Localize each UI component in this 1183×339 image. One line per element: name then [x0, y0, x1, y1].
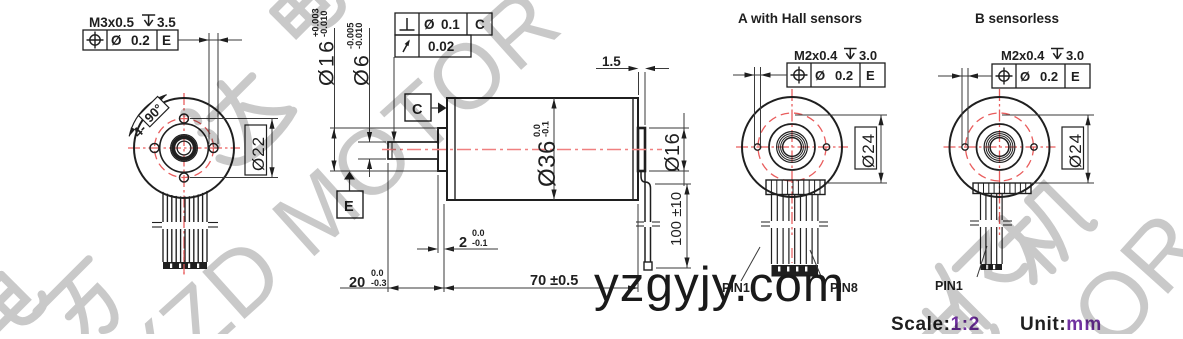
- view A M2 holes: [754, 144, 760, 150]
- left view shaft inner circle: [177, 141, 191, 155]
- Ø16 +0.003/-0.010 label: [311, 8, 339, 86]
- dimension 20 0/-0.3: [340, 287, 444, 289]
- view B red bolt circle: [966, 113, 1034, 181]
- svg-text:Ø6: Ø6: [350, 53, 374, 86]
- svg-text:3.0: 3.0: [1066, 48, 1084, 63]
- rear cable bend: [641, 171, 651, 188]
- view A red cable line: [791, 248, 793, 263]
- svg-text:0.2: 0.2: [131, 33, 150, 48]
- left view red centerline vertical: [183, 93, 185, 276]
- runout symbol: [403, 41, 409, 52]
- view A Ø24 dim line: [880, 115, 882, 183]
- left view red bolt circle: [155, 119, 214, 178]
- watermark char dian (right): [910, 286, 1001, 339]
- motor body outline (side view): [447, 98, 638, 200]
- extension lines to right M3 hole: [208, 33, 210, 144]
- Ø36 0/-0.1 label: [532, 121, 561, 187]
- svg-text:3.0: 3.0: [859, 48, 877, 63]
- angular dimension arc 90deg: [129, 95, 167, 137]
- view A connector block: [766, 180, 825, 195]
- view A cable end bar: [772, 265, 819, 277]
- svg-text:0.0: 0.0: [472, 228, 485, 238]
- shaft Ø6 (side view): [388, 142, 438, 159]
- watermark chars dian-ji (top): [262, 0, 347, 46]
- view B ribbon lower: [981, 227, 1003, 264]
- svg-text:Ø16: Ø16: [315, 39, 339, 86]
- view A ribbon lower: [772, 228, 818, 264]
- svg-text:3.5: 3.5: [157, 15, 176, 30]
- view A boss circle: [769, 124, 815, 170]
- front boss Ø16 (side view): [438, 128, 447, 171]
- view B PIN leader: [977, 246, 987, 277]
- ext line boss face: [437, 175, 439, 253]
- svg-text:E: E: [162, 33, 171, 48]
- left view ribbon cable lower section: [163, 229, 207, 262]
- view B ext lines to hole: [961, 68, 963, 146]
- svg-text:0.2: 0.2: [1040, 69, 1058, 84]
- view A red bolt circle: [758, 113, 826, 181]
- rear cable break marks: [636, 222, 660, 226]
- view B Ø24 dim line: [1087, 115, 1089, 183]
- svg-text:0.2: 0.2: [835, 68, 853, 83]
- Ø16 front dim line: [334, 28, 336, 171]
- watermark char wan (bottom left): [36, 259, 133, 339]
- view A FCF position Ø0.2 E: [787, 63, 885, 87]
- datum C box: [405, 94, 431, 121]
- svg-text:A with Hall sensors: A with Hall sensors: [738, 11, 862, 26]
- svg-text:20: 20: [349, 275, 365, 291]
- ext line body front: [443, 204, 445, 292]
- svg-text:Ø16: Ø16: [662, 133, 684, 172]
- svg-text:70 ±0.5: 70 ±0.5: [530, 273, 578, 289]
- view B M2 holes: [962, 144, 968, 150]
- position symbol: [90, 35, 100, 45]
- view A Ø24 boxed dim: [855, 127, 877, 169]
- view B FCF position Ø0.2 E: [992, 64, 1090, 88]
- FCF leader line to M3 hole (left view): [178, 39, 242, 41]
- view A ext lines to hole: [754, 67, 756, 146]
- Ø22 boxed basic dimension: [245, 125, 267, 175]
- left view cable break marks: [152, 223, 218, 228]
- view B outer circle: [950, 97, 1050, 197]
- left view red cable centerline: [183, 250, 185, 276]
- view A break marks: [761, 222, 828, 226]
- svg-text:Ø: Ø: [111, 33, 122, 48]
- watermark partial char (left edge): [0, 253, 49, 339]
- svg-text:-0.010: -0.010: [354, 23, 364, 49]
- FCF leader to shaft: [393, 57, 395, 136]
- Ø16 front ext lines: [330, 127, 438, 129]
- view B connector block: [973, 183, 1031, 194]
- Ø16 rear ext lines: [649, 127, 689, 129]
- Ø36 dim line: [553, 98, 555, 200]
- left view shaft thick ring: [173, 137, 195, 159]
- svg-text:-0.1: -0.1: [541, 121, 551, 137]
- svg-text:Ø24: Ø24: [859, 133, 878, 168]
- shaft chamfer line: [391, 142, 393, 159]
- middle view red centerline: [382, 149, 662, 151]
- svg-text:Ø: Ø: [815, 68, 825, 83]
- ext line body rear: [637, 204, 639, 292]
- watermark char yi (behind view B cable): [925, 224, 1036, 335]
- svg-text:Ø24: Ø24: [1066, 133, 1085, 168]
- view B cable end bar: [981, 264, 1003, 270]
- datum E triangle: [344, 172, 355, 180]
- Ø22 dimension line: [271, 119, 273, 178]
- view A PIN leaders: [741, 247, 760, 281]
- watermark char ji (right): [987, 175, 1097, 285]
- watermark char da (over left view): [179, 58, 296, 175]
- svg-text:Ø: Ø: [424, 17, 435, 32]
- left view pilot boss circle: [160, 124, 209, 173]
- label 4-90deg (boxed basic angle): [127, 96, 171, 140]
- svg-text:E: E: [866, 68, 875, 83]
- left view M3 holes: [180, 114, 189, 123]
- left view motor outer circle: [134, 98, 234, 198]
- view A inner rings: [777, 132, 808, 163]
- Ø6 ext lines: [358, 141, 386, 143]
- dimension 70 ±0.5: [444, 287, 638, 289]
- rear cable end cap: [644, 262, 652, 270]
- svg-text:2: 2: [459, 235, 467, 251]
- left view cable end connector bar: [163, 262, 207, 269]
- svg-text:yzgyjy.com: yzgyjy.com: [594, 257, 845, 312]
- feature control frame position Ø0.2 E (left view): [83, 30, 178, 50]
- Ø6 -0.005/-0.010 label: [346, 23, 374, 86]
- view B red centerlines: [944, 146, 1056, 148]
- svg-text:Ø36: Ø36: [534, 140, 561, 187]
- Ø6 dim line and arrows: [369, 28, 371, 142]
- perpendicularity symbol: [406, 18, 408, 30]
- view A FCF leader: [733, 74, 787, 76]
- rear boss Ø16 (side view): [638, 128, 645, 171]
- 100±10 ext lines: [655, 183, 691, 185]
- feature control frame perpendicularity Ø0.1 C: [395, 13, 492, 35]
- rear plate inner line: [632, 98, 634, 200]
- svg-text:100 ±10: 100 ±10: [668, 192, 685, 246]
- 100±10 dim line: [686, 184, 688, 268]
- view B ribbon upper: [981, 194, 1003, 221]
- svg-text:M3x0.5: M3x0.5: [89, 15, 135, 30]
- left view bearing ring circle: [171, 135, 198, 162]
- datum C leader and triangle: [431, 107, 438, 109]
- view A Ø24 ext lines: [795, 114, 887, 116]
- svg-text:M2x0.4: M2x0.4: [794, 48, 838, 63]
- view A outer circle: [742, 97, 842, 197]
- rear cable upper section: [644, 182, 646, 222]
- rear cable lower section: [644, 227, 646, 262]
- left view ribbon cable upper section: [163, 191, 207, 222]
- datum E box: [337, 191, 363, 218]
- svg-text:E: E: [1071, 69, 1080, 84]
- front plate inner line: [454, 98, 456, 200]
- view B Ø24 ext lines: [1002, 114, 1094, 116]
- svg-text:0.0: 0.0: [371, 268, 384, 278]
- svg-text:-0.1: -0.1: [472, 238, 488, 248]
- feature control frame circular runout 0.02: [395, 35, 471, 57]
- view A ribbon upper: [772, 195, 818, 222]
- svg-text:Ø: Ø: [1020, 69, 1030, 84]
- view B boss circle: [977, 124, 1023, 170]
- Ø16 rear label: [662, 133, 684, 172]
- view B inner rings: [984, 132, 1015, 163]
- dimension 2 0/-0.1: [417, 248, 433, 250]
- view B FCF leader: [938, 75, 992, 77]
- 100±10 label: [668, 192, 685, 246]
- svg-text:-0.3: -0.3: [371, 278, 387, 288]
- depth symbol: [142, 14, 155, 16]
- Ø16 rear dim line: [683, 113, 685, 186]
- view A red centerlines: [736, 146, 848, 148]
- view B Ø24 boxed dim: [1062, 127, 1084, 169]
- ext line shaft tip: [387, 163, 389, 292]
- svg-text:M2x0.4: M2x0.4: [1001, 48, 1045, 63]
- view B break marks: [970, 221, 1012, 225]
- Ø22 extension lines: [190, 118, 278, 120]
- left view red centerline horizontal: [128, 147, 240, 149]
- svg-text:B sensorless: B sensorless: [975, 11, 1059, 26]
- svg-text:1.5: 1.5: [602, 54, 621, 69]
